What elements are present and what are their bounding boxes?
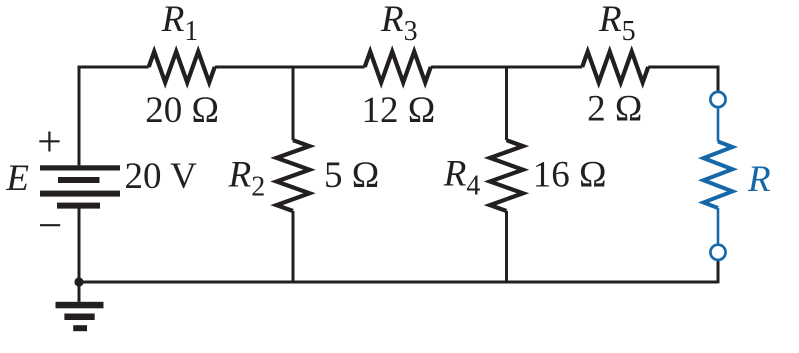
svg-text:R4: R4 [443, 154, 481, 202]
svg-text:2 Ω: 2 Ω [587, 89, 642, 130]
svg-text:20 V: 20 V [125, 156, 198, 197]
svg-text:20 Ω: 20 Ω [145, 90, 219, 131]
svg-text:R2: R2 [228, 155, 266, 203]
svg-text:12 Ω: 12 Ω [362, 90, 436, 131]
svg-text:R1: R1 [161, 0, 199, 47]
svg-text:E: E [5, 158, 29, 199]
svg-text:R: R [747, 159, 771, 200]
svg-text:5 Ω: 5 Ω [324, 155, 379, 196]
svg-text:16 Ω: 16 Ω [533, 155, 607, 196]
svg-text:R5: R5 [598, 0, 636, 47]
svg-text:R3: R3 [380, 0, 418, 47]
